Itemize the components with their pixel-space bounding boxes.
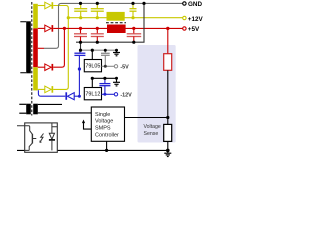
svg-text:Voltage: Voltage — [144, 124, 161, 130]
junction dots +12V rail — [67, 16, 70, 19]
node -12V junction dots — [78, 67, 81, 70]
LED D6 — [52, 123, 57, 127]
junction dots -5V rail — [79, 49, 82, 52]
capacitor C6 (+5V) — [127, 28, 142, 42]
svg-text:Single: Single — [95, 112, 110, 118]
phototransistor base lead — [32, 138, 36, 140]
-12V ground rail — [92, 77, 116, 79]
wire winding center tap to ground rail — [38, 47, 44, 49]
voltage sense shaded region — [138, 45, 176, 143]
svg-text:GND: GND — [188, 1, 202, 8]
wire yellow winding top to diode — [38, 5, 45, 7]
wire red winding tap to diode — [38, 27, 45, 29]
regulator U1 79L05 — [84, 50, 101, 72]
bottom rail — [17, 149, 168, 151]
terminal GND — [183, 2, 186, 5]
wire voltage sense to controller — [125, 117, 168, 119]
stub to 79L12 — [91, 78, 93, 87]
diode D3 (+5V bottom) — [45, 64, 53, 71]
svg-text:+5V: +5V — [188, 26, 200, 33]
junction dots ground rail — [79, 2, 82, 5]
regulator U2 79L12 — [84, 88, 101, 100]
-5V input rail — [81, 49, 119, 51]
svg-text:Sense: Sense — [144, 131, 159, 137]
capacitor C5 (+5V) — [91, 28, 104, 42]
wire D1 to +12V rail — [53, 6, 68, 18]
emitter lead — [25, 143, 33, 150]
ground symbol G3 — [164, 150, 171, 156]
diode D5 (-12V) — [65, 92, 74, 100]
junction dots +5V rail — [63, 27, 66, 30]
diode D4 (+12V bottom) — [45, 86, 53, 93]
ground symbol G2 — [113, 78, 120, 86]
transformer T1 secondary winding (red section +5V) — [33, 28, 38, 67]
capacitor C3 (+12V) — [130, 3, 137, 17]
capacitor C9 (blue, -12V output) — [99, 78, 110, 94]
junction dots ground return rail — [79, 41, 82, 44]
transformer T1 primary winding — [20, 21, 31, 73]
svg-text:79L12: 79L12 — [85, 92, 100, 98]
capacitor C1 (+12V) — [74, 3, 87, 17]
inductor L1 (+12V choke) — [107, 12, 125, 21]
GND rail — [61, 2, 183, 4]
capacitor C8 (gray, -5V output) — [101, 50, 110, 66]
choke coupling dashes — [106, 22, 126, 24]
svg-text:Controller: Controller — [95, 132, 119, 138]
resistor R2 (sense divider bottom) — [164, 124, 172, 141]
stub ground rail to -5V rail — [80, 42, 82, 50]
terminal -5V — [114, 65, 117, 68]
transformer T1 secondary winding (lower yellow section) — [33, 67, 38, 90]
transformer T2 (drive) left winding — [19, 104, 31, 115]
capacitor C4 (+5V) — [74, 28, 87, 42]
wire -12V output — [102, 93, 115, 95]
junction dots -12V ground rail — [91, 77, 94, 80]
diode D1 (+12V top) — [45, 2, 53, 9]
transformer T1 secondary winding (yellow section +12V) — [33, 4, 38, 29]
resistor R1 (sense divider top) — [167, 28, 169, 53]
wire -5V output — [102, 65, 115, 67]
transformer T1 core (dashed) — [31, 2, 33, 116]
capacitor C2 (+12V) — [91, 3, 104, 17]
ground symbol G1 — [113, 50, 120, 56]
feedback arrow into controller — [84, 122, 92, 129]
wire controller to primary ground — [106, 141, 108, 150]
opto top-left lead — [17, 126, 32, 135]
inductor L2 (+5V choke) — [107, 25, 126, 34]
light arrow (lightning) — [40, 134, 44, 143]
phototransistor bar — [31, 134, 33, 144]
capacitor C7 (blue, -12V input) — [74, 50, 85, 55]
wire D3 to +5V rail — [53, 28, 64, 67]
+12V rail — [68, 17, 183, 19]
svg-text:SMPS: SMPS — [95, 126, 111, 132]
svg-text:79L05: 79L05 — [85, 64, 100, 70]
ground return rail for output caps — [76, 3, 144, 42]
wire lower red winding tap to diode — [38, 66, 45, 68]
wire lower yellow winding tap to diode — [38, 88, 45, 90]
optocoupler U4 — [17, 123, 57, 152]
svg-text:-5V: -5V — [120, 64, 129, 70]
diode D2 (+5V top) — [45, 25, 53, 32]
wire -12V vertical — [78, 55, 80, 96]
svg-text:-12V: -12V — [120, 92, 132, 98]
transformer T2 right winding — [33, 104, 91, 115]
terminal +5V — [183, 27, 186, 30]
+5V rail — [53, 27, 183, 29]
terminal +12V — [183, 16, 186, 19]
svg-text:+12V: +12V — [188, 16, 203, 23]
controller box U3 — [91, 107, 124, 141]
wire D5 to -12V node — [74, 95, 79, 97]
wire D4 to +12V rail — [53, 18, 68, 90]
wire winding bottom to -12V diode — [38, 90, 65, 96]
wire R1 to junction — [167, 70, 169, 124]
svg-text:Voltage: Voltage — [95, 119, 113, 125]
terminal -12V — [114, 93, 117, 96]
